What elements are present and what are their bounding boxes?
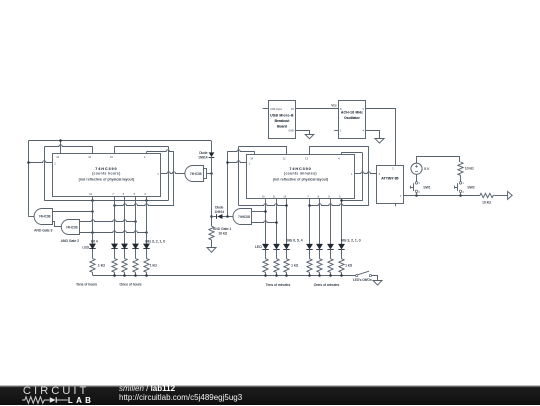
svg-text:14: 14 xyxy=(56,155,59,159)
svg-text:Bits 3, 2, 1, 0: Bits 3, 2, 1, 0 xyxy=(341,239,361,243)
svg-text:ACH-16 MHz: ACH-16 MHz xyxy=(341,110,363,114)
svg-text:1N914: 1N914 xyxy=(198,155,208,159)
svg-text:74HC08: 74HC08 xyxy=(238,215,250,219)
svg-text:Bit 4: Bit 4 xyxy=(91,240,98,244)
svg-text:SW2: SW2 xyxy=(467,185,474,189)
svg-text:10 kΩ: 10 kΩ xyxy=(218,231,227,235)
svg-text:13: 13 xyxy=(89,192,92,196)
svg-text:GND: GND xyxy=(288,128,294,132)
svg-text:5V: 5V xyxy=(291,107,294,111)
svg-text:1N914: 1N914 xyxy=(215,210,225,214)
svg-text:Board: Board xyxy=(277,124,287,128)
svg-text:(counts hours): (counts hours) xyxy=(92,172,121,176)
svg-text:Ones of minutes: Ones of minutes xyxy=(314,283,340,287)
svg-text:SW1: SW1 xyxy=(423,185,430,189)
svg-text:13: 13 xyxy=(283,194,286,198)
svg-text:13: 13 xyxy=(305,156,308,160)
svg-text:Bits 6, 5, 4: Bits 6, 5, 4 xyxy=(287,239,303,243)
svg-text:14: 14 xyxy=(250,156,253,160)
svg-text:Breakout: Breakout xyxy=(275,119,291,123)
svg-text:Bits 3, 2, 1, 0: Bits 3, 2, 1, 0 xyxy=(145,240,165,244)
svg-text:Diode: Diode xyxy=(215,205,224,209)
svg-text:74HC08: 74HC08 xyxy=(190,172,202,176)
svg-text:Diode: Diode xyxy=(199,151,208,155)
svg-text:LED: LED xyxy=(82,245,89,249)
svg-text:10 kΩ: 10 kΩ xyxy=(465,167,474,171)
svg-text:1 kΩ: 1 kΩ xyxy=(150,264,158,268)
svg-text:74HC08: 74HC08 xyxy=(39,215,51,219)
svg-text:Vcc: Vcc xyxy=(331,104,337,108)
svg-text:Ones of hours: Ones of hours xyxy=(120,283,142,287)
svg-text:(counts minutes): (counts minutes) xyxy=(284,172,317,176)
svg-text:74HC08: 74HC08 xyxy=(66,225,78,229)
svg-text:USB Micro-B: USB Micro-B xyxy=(270,114,294,118)
svg-text:12: 12 xyxy=(283,156,286,160)
svg-text:AND Gate 2: AND Gate 2 xyxy=(61,239,79,243)
svg-text:5 V: 5 V xyxy=(424,167,430,171)
svg-text:74HC390: 74HC390 xyxy=(95,167,117,171)
svg-text:LED's Off/On: LED's Off/On xyxy=(353,278,372,282)
svg-text:13: 13 xyxy=(110,155,113,159)
svg-text:10 kΩ: 10 kΩ xyxy=(482,200,491,204)
svg-text:LED: LED xyxy=(255,245,262,249)
svg-text:Tens of hours: Tens of hours xyxy=(76,283,97,287)
svg-text:Oscillator: Oscillator xyxy=(344,116,360,120)
svg-text:AND Gate 3: AND Gate 3 xyxy=(34,228,52,232)
svg-text:10: 10 xyxy=(262,194,265,198)
svg-text:74HC390: 74HC390 xyxy=(289,167,311,171)
svg-text:(not reflective of physical la: (not reflective of physical layout) xyxy=(79,178,135,182)
svg-text:USB Input: USB Input xyxy=(270,107,282,111)
svg-text:1 kΩ: 1 kΩ xyxy=(291,264,299,268)
svg-text:Tens of minutes: Tens of minutes xyxy=(266,283,291,287)
svg-text:ATTINY 85: ATTINY 85 xyxy=(381,177,398,181)
svg-text:12: 12 xyxy=(88,155,91,159)
svg-text:1 kΩ: 1 kΩ xyxy=(345,264,353,268)
svg-text:(not reflective of physical la: (not reflective of physical layout) xyxy=(273,178,329,182)
svg-text:1 kΩ: 1 kΩ xyxy=(98,264,106,268)
